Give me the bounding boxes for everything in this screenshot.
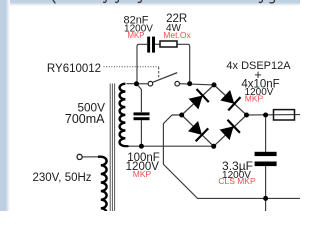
svg-text:RY610012: RY610012 [47,63,101,75]
svg-text:MKP: MKP [133,169,152,179]
svg-text:MKP: MKP [245,93,264,103]
svg-text:Met.Ox: Met.Ox [163,30,191,40]
svg-text:700mA: 700mA [65,112,105,126]
svg-text:MKP: MKP [128,31,145,40]
svg-text:CLS MKP: CLS MKP [218,176,256,186]
svg-text:230V, 50Hz: 230V, 50Hz [33,172,92,184]
